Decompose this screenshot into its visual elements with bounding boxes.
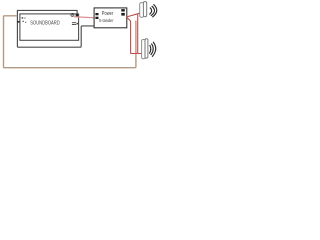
speaker 2 cabinet (bottom right) (142, 39, 148, 59)
speaker 1 cabinet (top right) (140, 2, 147, 18)
connector plug: black square where top wire enters box (76, 14, 79, 16)
power amp box (94, 8, 127, 28)
connector jacks: power box right outputs (121, 9, 125, 11)
svg-text:Power: Power (102, 11, 114, 17)
connector jacks: power box left inputs (95, 13, 98, 15)
connector icon: circled jack at soundboard top-right (71, 13, 74, 16)
wire: red speaker cable from power box down to speaker 2 (bottom) (127, 17, 142, 53)
connector icons inside soundboard left edge (22, 17, 27, 23)
speaker 2 sound waves (149, 42, 155, 57)
speaker 1 sound waves (149, 4, 156, 17)
wire: black stub plugging into soundboard left edge (17, 21, 21, 23)
connector icon: lower jack marks at soundboard right edge (72, 23, 76, 25)
wire: red speaker cable to speaker 1 (top) (127, 13, 140, 17)
svg-text:X-tander: X-tander (99, 18, 114, 23)
wire: pink patch cable from soundboard right jack to power box left input (74, 16, 94, 19)
wire: red branch dropping from speaker-1 cable down to speaker 2 (137, 14, 139, 54)
svg-text:SOUNDBOARD: SOUNDBOARD (30, 20, 60, 26)
soundboard box (20, 14, 79, 40)
wire: black signal cable from soundboard top-right jack, over the top, down the left, under the box to the power box left input (17, 10, 94, 47)
wire: tan cable from soundboard left side, down, along the bottom, up to speaker 2 area (4, 16, 136, 68)
